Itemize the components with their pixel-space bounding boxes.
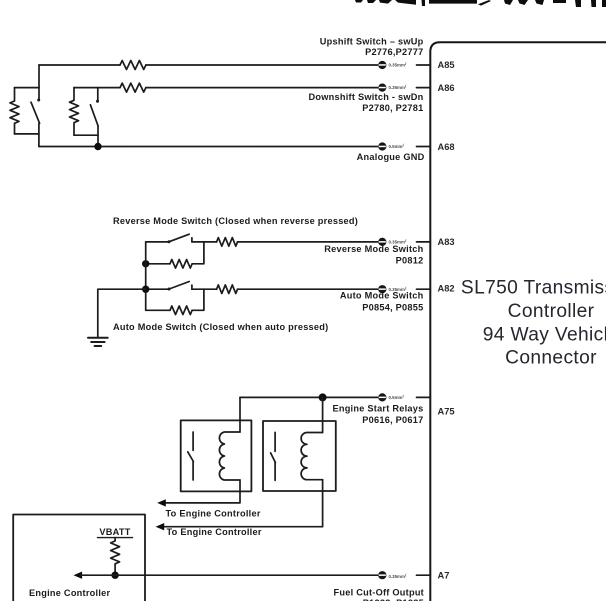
wire: stub A75 to connector	[417, 396, 431, 398]
switch: upshift switch (normally open)	[31, 65, 40, 147]
svg-text:Auto Mode Switch (Closed when: Auto Mode Switch (Closed when auto press…	[113, 322, 328, 332]
relay K1 box	[181, 420, 252, 491]
svg-text:Fuel Cut-Off Output: Fuel Cut-Off Output	[334, 587, 424, 597]
relay K2 coil	[301, 433, 323, 480]
wire: stub A7 to connector	[417, 574, 431, 576]
wire: relay K2 coil to engine controller	[159, 480, 323, 527]
svg-text:P0812: P0812	[396, 256, 424, 266]
svg-text:VBATT: VBATT	[99, 527, 130, 537]
relay K2 contact switch	[271, 432, 276, 480]
svg-text:P2776,P2777: P2776,P2777	[365, 47, 423, 57]
arrow to engine controller (relay K1)	[157, 499, 166, 506]
wire-size symbol 0.5mm2 at A75	[378, 393, 405, 401]
svg-text:Auto Mode Switch: Auto Mode Switch	[340, 290, 424, 300]
label fuel cut-off output	[334, 587, 424, 601]
label auto mode switch P0854, P0855	[340, 290, 424, 312]
wire: stub A83 to connector	[417, 241, 431, 243]
wire: stub A85 to connector	[417, 64, 431, 66]
resistor: downshift parallel resistor	[70, 88, 79, 136]
node: junction relay 2 feed	[319, 393, 327, 401]
wire: auto parallel branch	[146, 289, 204, 310]
wire: fuel cut-off line to pin A7	[81, 574, 378, 576]
resistor: reverse parallel resistor	[170, 260, 192, 269]
wire: relay K1 coil to engine controller	[160, 480, 240, 503]
wire: stub A86 to connector	[417, 87, 431, 89]
node: junction fuel cut-off / pull-up	[111, 572, 118, 579]
resistor: series resistor on auto line	[217, 285, 238, 294]
svg-text:Upshift Switch – swUp: Upshift Switch – swUp	[320, 36, 424, 46]
wire: stub A68 to connector	[417, 146, 431, 148]
resistor: series resistor on reverse line	[217, 238, 238, 247]
svg-text:A82: A82	[438, 284, 455, 294]
svg-text:A83: A83	[438, 237, 455, 247]
wire: analogue ground bus to pin A68	[39, 146, 378, 148]
wire: relay K2 coil top feed	[322, 397, 324, 432]
switch: downshift switch (normally open)	[90, 88, 99, 147]
wire-size symbol 0.35mm2 at A82	[378, 285, 407, 293]
connector: SL750 94-way vehicle connector outline	[430, 42, 606, 601]
node: junction auto line / ground spur	[142, 286, 149, 293]
wire-size symbol 0.35mm2 at A85	[378, 61, 407, 69]
wire: tee to upshift parallel resistor	[15, 87, 40, 89]
engine controller box	[13, 515, 145, 601]
wire: engine start relay feed to pin A75	[240, 396, 378, 398]
label: SL750 Transmission Controller 94 Way Vehicle Connector	[461, 278, 606, 369]
ground symbol	[88, 338, 108, 346]
label reverse mode switch P0812	[324, 244, 423, 266]
wire: reverse mode line to pin A83	[146, 241, 378, 243]
wire-size symbol 0.35mm2 at A7	[378, 571, 407, 579]
wire: stub A82 to connector	[417, 288, 431, 290]
switch: reverse mode switch	[168, 234, 192, 243]
wire: downshift line to pin A86	[74, 87, 378, 89]
svg-text:Connector: Connector	[505, 348, 597, 369]
switch: auto mode switch	[168, 282, 192, 291]
svg-text:0.5mm²́: 0.5mm²́	[389, 395, 405, 400]
svg-text:Reverse Mode Switch: Reverse Mode Switch	[324, 244, 423, 254]
cut-off heading text at top edge	[355, 0, 606, 7]
svg-text:0.35mm²́: 0.35mm²́	[389, 63, 408, 68]
node: junction on analogue ground bus	[94, 143, 101, 150]
node: junction reverse branch on left rail	[142, 260, 149, 267]
label upshift switch swUp P2776,P2777	[320, 36, 424, 57]
svg-text:SL750 Transmission: SL750 Transmission	[461, 278, 606, 299]
label downshift switch swDn P2780, P2781	[309, 92, 424, 113]
wire: relay K1 coil top feed	[239, 397, 241, 432]
wire-size symbol 0.35mm2 at A83	[378, 238, 407, 246]
arrow into engine controller (fuel cut-off)	[74, 572, 83, 579]
wire: upshift line to pin A85	[39, 64, 378, 66]
svg-text:To Engine Controller: To Engine Controller	[167, 527, 262, 537]
svg-text:P0854, P0855: P0854, P0855	[362, 303, 423, 313]
svg-text:Engine Start Relays: Engine Start Relays	[332, 404, 423, 414]
svg-text:Downshift Switch - swDn: Downshift Switch - swDn	[309, 92, 424, 102]
svg-text:A75: A75	[438, 407, 455, 417]
relay K1 coil	[219, 432, 240, 480]
svg-text:To Engine Controller: To Engine Controller	[166, 509, 261, 519]
wire: left rail for mode switches	[145, 242, 147, 310]
resistor: upshift parallel resistor	[10, 88, 19, 134]
relay K1 contact switch	[188, 432, 194, 480]
svg-text:Reverse Mode Switch (Closed wh: Reverse Mode Switch (Closed when reverse…	[113, 216, 358, 226]
resistor: VBATT pull-up resistor	[111, 538, 120, 576]
svg-text:94 Way Vehicle: 94 Way Vehicle	[483, 324, 606, 345]
svg-text:P2780, P2781: P2780, P2781	[362, 103, 423, 113]
svg-text:Engine Controller: Engine Controller	[29, 588, 111, 598]
wire: upshift resistor bottom return	[15, 133, 39, 135]
arrow to engine controller (relay K2)	[156, 523, 165, 530]
wire-size symbol 0.35mm2 at A86	[378, 84, 407, 92]
wire-size symbol 0.5mm2 at A68	[378, 142, 405, 150]
resistor: series resistor on downshift line	[120, 83, 146, 92]
resistor: auto parallel resistor	[170, 306, 192, 315]
svg-text:0.35mm²́: 0.35mm²́	[389, 85, 408, 90]
svg-text:P0616, P0617: P0616, P0617	[362, 415, 423, 425]
label engine start relays P0616, P0617	[332, 404, 423, 426]
svg-text:A85: A85	[438, 60, 455, 70]
resistor: series resistor on upshift line	[120, 61, 146, 70]
wire: reverse parallel branch	[146, 242, 204, 264]
svg-text:A68: A68	[438, 142, 455, 152]
wire: auto mode line to pin A82	[146, 288, 378, 290]
wire: downshift resistor bottom return	[74, 134, 98, 136]
svg-text:A86: A86	[438, 83, 455, 93]
svg-text:Analogue GND: Analogue GND	[357, 152, 425, 162]
svg-text:Controller: Controller	[508, 301, 595, 322]
relay K2 box	[263, 421, 336, 491]
svg-text:0.5mm²́: 0.5mm²́	[389, 144, 405, 149]
wire: VBATT underline rail	[98, 537, 133, 539]
svg-text:0.35mm²́: 0.35mm²́	[389, 574, 408, 579]
wire: ground spur	[98, 289, 146, 336]
svg-text:A7: A7	[438, 570, 450, 580]
